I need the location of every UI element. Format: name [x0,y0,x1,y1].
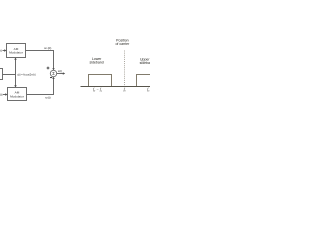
summer sigma circle [50,70,56,76]
node plus sign [47,67,50,70]
svg-text:s(t): s(t) [58,69,62,73]
oscillator box (cut off at left image edge) [0,69,3,80]
svg-text:m(t): m(t) [0,49,2,53]
svg-text:c(t) = Accos(2πfct): c(t) = Accos(2πfct) [17,72,36,76]
wire box 1 output to summer [26,51,54,70]
wire summer output s(t) [57,73,64,75]
wire carrier vertical to both AM modulators [15,59,17,86]
wire input arrow to box 2 [3,94,6,96]
svg-text:Σ: Σ [52,71,55,76]
svg-text:sideband: sideband [89,61,103,65]
wire input arrow to box 1 [3,50,5,52]
svg-text:sideband: sideband [140,61,150,65]
wire oscillator to junction [3,74,16,76]
svg-text:s1(t): s1(t) [44,46,51,50]
AM modulator box 1 [7,44,26,58]
svg-text:Modulator: Modulator [9,51,23,55]
svg-text:m(t): m(t) [0,93,3,97]
upper sideband spectrum rect (cut off at right) [137,75,153,87]
wire box 2 output to summer [27,78,54,95]
frequency axis baseline [81,86,151,88]
svg-text:s2(t): s2(t) [45,96,50,100]
wire dashed carrier position line [124,51,126,86]
AM modulator box 2 [8,88,27,101]
svg-text:of carrier: of carrier [115,42,130,46]
node minus sign [50,77,52,79]
svg-text:Modulator: Modulator [10,94,24,98]
lower sideband spectrum rect [89,75,112,87]
